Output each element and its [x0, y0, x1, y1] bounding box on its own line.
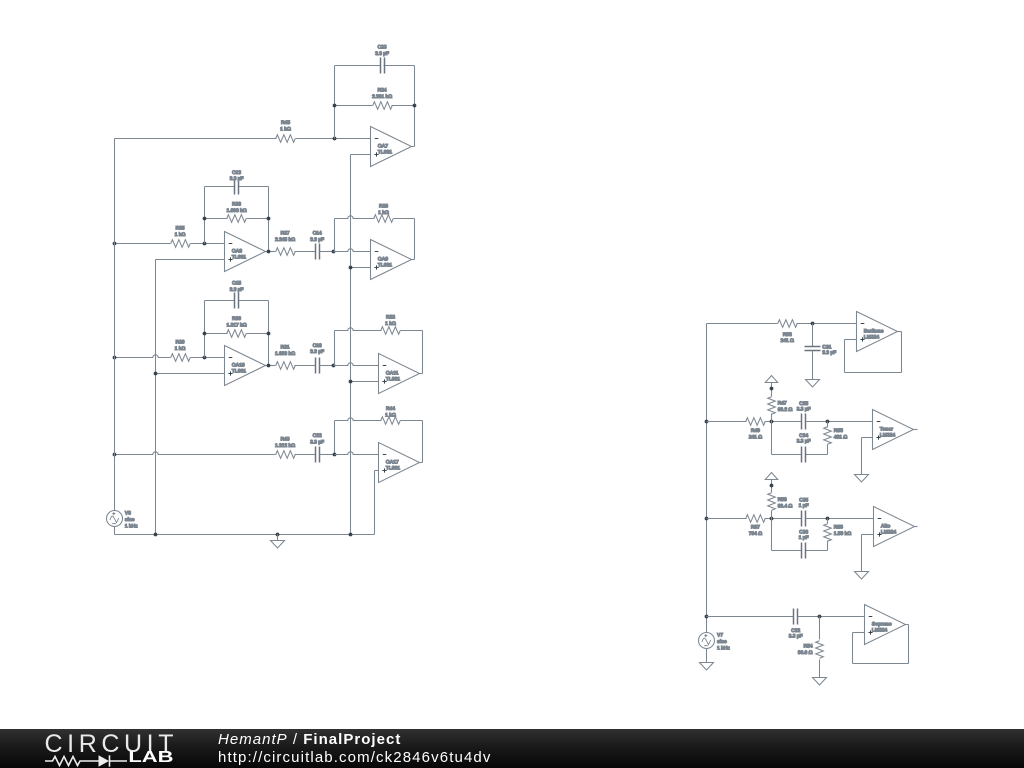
resistor R32: [335, 327, 423, 335]
bottom bar: [0, 729, 1024, 768]
node G: [770, 517, 774, 521]
svg-text:C16: C16: [313, 343, 322, 349]
resistor R55 label: [834, 428, 847, 440]
svg-text:1 µF: 1 µF: [799, 535, 809, 541]
svg-text:3.3 µF: 3.3 µF: [230, 176, 244, 182]
wire: [707, 616, 794, 618]
svg-text:1.693 kΩ: 1.693 kΩ: [226, 208, 246, 214]
svg-text:1 kΩ: 1 kΩ: [280, 126, 291, 132]
svg-text:LAB: LAB: [128, 749, 173, 766]
wire: [351, 154, 371, 156]
logo resistor-diode glyph: [45, 755, 127, 766]
resistor R56 label: [778, 497, 793, 509]
svg-text:R47: R47: [778, 400, 787, 406]
svg-text:R57: R57: [751, 525, 760, 531]
svg-text:1.683 kΩ: 1.683 kΩ: [275, 351, 295, 357]
capacitor C32: [794, 609, 798, 625]
resistor R54 label: [798, 643, 813, 655]
wire: [422, 331, 424, 374]
svg-text:3.3 µF: 3.3 µF: [797, 407, 811, 413]
wire: [898, 331, 902, 333]
junction: [154, 533, 158, 537]
capacitor C23 label: [375, 44, 389, 56]
svg-text:LM324: LM324: [864, 334, 880, 340]
svg-text:V7: V7: [717, 633, 723, 639]
svg-text:R30: R30: [232, 316, 241, 322]
resistor R49 label: [749, 428, 762, 440]
resistor R28: [335, 215, 415, 223]
resistor R47: [768, 383, 776, 422]
op-amp Soprano: [865, 605, 906, 645]
capacitor C25 label: [797, 401, 811, 413]
svg-text:TL081: TL081: [232, 254, 246, 260]
capacitor C15 label: [230, 280, 244, 292]
svg-text:R53: R53: [783, 332, 792, 338]
junction: [154, 372, 158, 376]
arrow terminal: [765, 376, 778, 383]
wire: [320, 251, 334, 253]
svg-text:R43: R43: [281, 436, 290, 442]
resistor R29 label: [175, 339, 186, 351]
node C (OA11 inverting input): [332, 364, 336, 368]
resistor R53 label: [780, 332, 793, 344]
wire (feedback): [853, 625, 909, 664]
svg-text:1 kΩ: 1 kΩ: [175, 346, 186, 352]
resistor R44: [335, 417, 423, 425]
capacitor C14: [316, 244, 320, 260]
wire: [266, 362, 316, 370]
resistor R58: [824, 519, 832, 551]
resistor R26: [205, 215, 269, 223]
junction (OA8 output): [267, 250, 271, 254]
wire: [266, 248, 316, 256]
capacitor C34 label: [797, 433, 811, 445]
wire: [707, 418, 802, 426]
junction: [349, 380, 353, 384]
capacitor C13 label: [230, 170, 244, 182]
wire (output stub): [914, 429, 918, 431]
svg-text:3.3 µF: 3.3 µF: [310, 237, 324, 243]
capacitor C22: [316, 447, 320, 463]
svg-text:1 kΩ: 1 kΩ: [378, 210, 389, 216]
wire: [862, 438, 873, 475]
wire: [115, 135, 371, 143]
resistor R45 label: [280, 120, 291, 132]
svg-text:TL081: TL081: [386, 376, 400, 382]
svg-text:3.3 µF: 3.3 µF: [310, 349, 324, 355]
svg-text:241 Ω: 241 Ω: [780, 338, 793, 344]
svg-text:TL081: TL081: [378, 262, 392, 268]
svg-text:69.2 Ω: 69.2 Ω: [778, 407, 793, 413]
junction: [203, 332, 207, 336]
voltage source V7: [699, 633, 715, 649]
node A (OA7 inverting input): [333, 137, 337, 141]
wire: [375, 471, 379, 535]
wire (right bus): [706, 324, 708, 633]
wire: [420, 373, 423, 375]
svg-text:R44: R44: [386, 406, 395, 412]
node F: [826, 420, 830, 424]
svg-text:LM324: LM324: [880, 432, 896, 438]
wire (feedback): [845, 332, 902, 373]
resistor R57 label: [749, 525, 762, 537]
wire: [204, 301, 206, 358]
capacitor C25: [802, 414, 806, 430]
wire: [334, 66, 336, 139]
junction: [413, 104, 417, 108]
junction: [349, 266, 353, 270]
svg-text:R29: R29: [176, 339, 185, 345]
svg-text:R31: R31: [281, 344, 290, 350]
svg-text:3.3 µF: 3.3 µF: [230, 287, 244, 293]
wire: [812, 324, 814, 347]
svg-text:R32: R32: [386, 314, 395, 320]
capacitor C13: [205, 179, 269, 195]
capacitor C22 label: [310, 433, 324, 445]
op-amp Alto: [874, 507, 915, 547]
wire: [798, 616, 865, 618]
resistor R30 label: [226, 316, 246, 328]
wire: [707, 320, 857, 328]
svg-text:2.261 kΩ: 2.261 kΩ: [372, 94, 392, 100]
resistor R30: [205, 330, 269, 338]
svg-text:1 kΩ: 1 kΩ: [175, 232, 186, 238]
junction: [113, 242, 117, 246]
wire: [906, 624, 909, 626]
resistor R26 label: [226, 202, 246, 214]
wire: [412, 146, 415, 148]
svg-text:1.59 kΩ: 1.59 kΩ: [834, 531, 851, 537]
junction: [113, 356, 117, 360]
svg-text:R24: R24: [378, 87, 387, 93]
wire: [422, 421, 424, 463]
svg-text:LM324: LM324: [881, 529, 897, 535]
svg-text:V6: V6: [125, 510, 131, 516]
wire: [707, 515, 802, 523]
op-amp OA9: [371, 240, 412, 280]
wire: [862, 535, 874, 572]
capacitor C32 label: [789, 628, 803, 640]
wire (left bus): [114, 139, 116, 511]
junction: [203, 217, 207, 221]
wire: [771, 519, 773, 551]
resistor R24 label: [372, 87, 392, 99]
resistor R24: [335, 102, 415, 110]
resistor R32 label: [385, 314, 396, 326]
capacitor C23: [335, 58, 415, 74]
resistor R43 label: [275, 436, 295, 448]
svg-text:TL081: TL081: [386, 465, 400, 471]
wire: [334, 331, 336, 366]
junction: [203, 242, 207, 246]
wire with hop: [115, 354, 225, 362]
op-amp Tenor: [873, 410, 914, 450]
wire: [334, 421, 336, 455]
op-amp OA10: [225, 346, 266, 386]
svg-text:R58: R58: [834, 525, 843, 531]
svg-text:sine: sine: [717, 639, 727, 645]
ground: [271, 541, 285, 549]
svg-text:1 kHz: 1 kHz: [717, 646, 730, 652]
resistor R55: [824, 422, 832, 455]
wire: [320, 454, 335, 456]
wire: [156, 259, 225, 261]
svg-text:R27: R27: [281, 231, 290, 237]
wire: [412, 259, 415, 261]
svg-text:C14: C14: [313, 231, 322, 237]
wire: [350, 155, 352, 535]
capacitor C34: [772, 447, 828, 463]
svg-text:1.212 kΩ: 1.212 kΩ: [275, 443, 295, 449]
wire: [414, 219, 416, 260]
wire with hop: [335, 452, 379, 455]
wire: [351, 267, 371, 269]
node H: [826, 517, 830, 521]
wire: [204, 187, 206, 244]
capacitor C36: [772, 543, 828, 559]
resistor R25 label: [175, 225, 186, 237]
svg-text:LM324: LM324: [872, 627, 888, 633]
svg-text:1.217 kΩ: 1.217 kΩ: [226, 323, 246, 329]
svg-text:1 kΩ: 1 kΩ: [385, 321, 396, 327]
node I: [818, 615, 822, 619]
capacitor C31: [805, 347, 821, 351]
svg-text:sine: sine: [125, 517, 135, 523]
wire: [414, 66, 416, 147]
wire: [156, 373, 225, 375]
junction: [770, 484, 774, 488]
op-amp OA7: [371, 127, 412, 167]
plot title: [218, 731, 401, 748]
wire: [420, 462, 423, 464]
voltage source V6: [107, 511, 123, 527]
junction: [113, 453, 117, 457]
svg-text:69.4 Ω: 69.4 Ω: [778, 503, 793, 509]
junction: [705, 420, 709, 424]
wire with hops: [115, 451, 316, 459]
op-amp OA11: [379, 354, 420, 394]
wire with hop: [334, 363, 379, 366]
wire (output stub): [915, 526, 918, 528]
junction: [203, 356, 207, 360]
wire: [115, 240, 225, 248]
capacitor C31 label: [822, 344, 836, 356]
resistor R31 label: [275, 344, 295, 356]
wire: [806, 518, 874, 520]
svg-text:1 kΩ: 1 kΩ: [385, 412, 396, 418]
svg-text:R26: R26: [232, 202, 241, 208]
svg-text:3.3 µF: 3.3 µF: [797, 439, 811, 445]
svg-text:R49: R49: [751, 428, 760, 434]
junction: [811, 322, 815, 326]
junction: [705, 517, 709, 521]
capacitor C16 label: [310, 343, 324, 355]
svg-text:C13: C13: [232, 170, 241, 176]
resistor R56: [768, 480, 776, 519]
capacitor C35: [802, 511, 806, 527]
resistor R27 label: [275, 231, 295, 243]
junction: [705, 615, 709, 619]
svg-text:R56: R56: [778, 497, 787, 503]
svg-text:3.3 µF: 3.3 µF: [310, 439, 324, 445]
plot url: [218, 749, 492, 766]
junction: [276, 533, 280, 537]
svg-text:241 Ω: 241 Ω: [749, 434, 762, 440]
svg-text:R28: R28: [379, 203, 388, 209]
svg-text:3.3 µF: 3.3 µF: [375, 51, 389, 57]
node B (OA9 inverting input): [332, 250, 336, 254]
op-amp OA8: [225, 232, 266, 272]
capacitor C16: [316, 358, 320, 374]
svg-text:481 Ω: 481 Ω: [834, 434, 847, 440]
op-amp OA17: [379, 443, 420, 483]
svg-text:TL081: TL081: [378, 149, 392, 155]
ground: [700, 663, 714, 671]
wire: [268, 301, 270, 366]
junction: [770, 387, 774, 391]
junction: [267, 332, 271, 336]
ground: [855, 572, 869, 580]
resistor R54: [816, 617, 824, 678]
svg-text:R45: R45: [281, 120, 290, 126]
ground: [806, 380, 820, 388]
wire: [334, 219, 336, 252]
svg-text:R25: R25: [176, 225, 185, 231]
svg-text:2.245 kΩ: 2.245 kΩ: [275, 237, 295, 243]
svg-text:C15: C15: [232, 280, 241, 286]
junction (OA10 output): [267, 364, 271, 368]
source V7 label: [717, 633, 730, 652]
wire: [706, 649, 708, 663]
node D (OA17 inverting input): [333, 453, 337, 457]
wire: [771, 422, 773, 455]
op-amp Baritone: [857, 312, 898, 352]
capacitor C15: [205, 293, 269, 309]
resistor R58 label: [834, 525, 851, 537]
svg-text:3.3 µF: 3.3 µF: [789, 634, 803, 640]
svg-text:R54: R54: [804, 643, 813, 649]
svg-text:R55: R55: [834, 428, 843, 434]
source V6 label: [125, 510, 138, 529]
svg-text:3.3 µF: 3.3 µF: [822, 350, 836, 356]
wire: [320, 365, 334, 367]
wire: [812, 351, 814, 380]
node E: [770, 420, 774, 424]
wire: [806, 421, 873, 423]
svg-text:1 µF: 1 µF: [799, 503, 809, 509]
svg-text:C23: C23: [378, 44, 387, 50]
wire with hop: [334, 249, 371, 252]
capacitor C36 label: [799, 530, 809, 542]
wire: [351, 381, 379, 383]
svg-text:C22: C22: [313, 433, 322, 439]
resistor R28 label: [378, 203, 389, 215]
ground: [813, 678, 827, 686]
svg-text:80.6 Ω: 80.6 Ω: [798, 650, 813, 656]
ground: [855, 475, 869, 483]
capacitor C35 label: [799, 497, 809, 509]
CircuitLab logo: [0, 729, 210, 768]
junction: [349, 533, 353, 537]
svg-text:1 kHz: 1 kHz: [125, 523, 138, 529]
resistor R47 label: [778, 400, 793, 412]
wire: [268, 187, 270, 252]
junction: [333, 104, 337, 108]
resistor R44 label: [385, 406, 396, 418]
capacitor C14 label: [310, 231, 324, 243]
arrow terminal: [765, 473, 778, 480]
wire: [277, 535, 279, 541]
vertical bus from OA8 + input: [155, 260, 157, 535]
junction: [267, 217, 271, 221]
wire: [115, 527, 375, 535]
svg-text:794 Ω: 794 Ω: [749, 531, 762, 537]
svg-text:TL081: TL081: [232, 368, 246, 374]
